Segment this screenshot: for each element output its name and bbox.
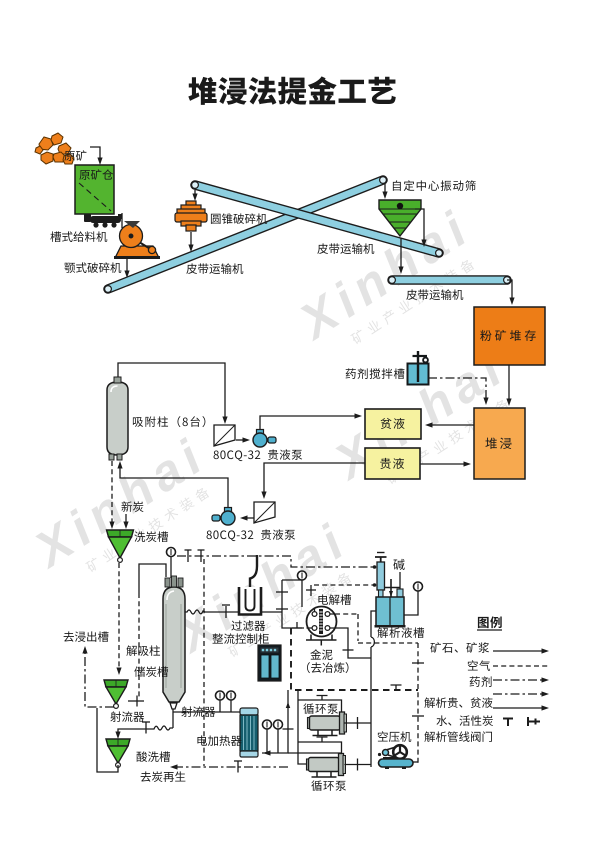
label: 碱	[393, 559, 404, 570]
pump 80CQ-32 No.2	[225, 508, 232, 514]
label: 80CQ-32 贵液泵	[207, 529, 296, 541]
wire: screen oversize return to upper belt	[415, 209, 424, 242]
legend: ore/slurry line	[493, 650, 544, 652]
label: 解析贵、贫液	[424, 697, 492, 708]
wire: bin to jaw crusher	[121, 213, 123, 228]
wire: launder to pump 1	[236, 439, 246, 441]
label: （去冶炼）	[307, 662, 349, 673]
legend: desorb solution line	[493, 693, 544, 695]
circulation pump 1	[308, 718, 311, 729]
wire: loaded carbon line (dashed) column to carbon wash tank	[111, 461, 113, 523]
heap leach box	[474, 408, 525, 479]
wire: air line (dashed) near electrowinning	[335, 614, 418, 764]
label: 整流控制柜	[212, 633, 269, 644]
wire: washed carbon (dashed) to carbon storage tank	[118, 563, 120, 668]
wire: heap leach to barren solution	[429, 424, 474, 426]
label: 堆浸法提金工艺	[188, 76, 395, 104]
wire: pump 2 discharge	[345, 764, 372, 766]
label: 电加热器	[197, 735, 241, 746]
label: 槽式给料机	[50, 231, 107, 242]
ore bin (raw ore bin)	[75, 165, 114, 214]
label: 解析液槽	[377, 627, 424, 638]
desorption liquid tank	[375, 579, 406, 628]
legend title underline	[477, 629, 502, 631]
label: 去浸出槽	[64, 631, 109, 642]
label: 自定中心振动筛	[393, 180, 476, 191]
label: 储炭槽	[134, 666, 168, 677]
gauges on heater outlet	[267, 729, 278, 753]
wire: pump 2 to adsorption column bottom	[120, 466, 228, 507]
valve on storage tank side	[128, 700, 144, 702]
launder of pump 1	[214, 425, 235, 446]
wire: reagent dosing line to heap (dash-dot)	[428, 378, 486, 400]
label: 空气	[468, 660, 490, 671]
wire: jaw crusher discharge to belt	[126, 259, 128, 272]
wire: desorb tank to circulation pumps (with crossover hop)	[371, 611, 376, 767]
label: 贫液	[381, 418, 405, 429]
pregnant solution box	[365, 448, 420, 479]
label: 洗炭槽	[134, 531, 168, 542]
label: 新炭	[121, 501, 143, 512]
wire: pump 1 to barren solution box	[260, 416, 358, 429]
wire: acid wash feed line with hose	[118, 726, 173, 734]
wire: pregnant solution to heap leach	[420, 463, 466, 465]
wire: pump 1 discharge	[345, 722, 372, 724]
carbon storage tank	[104, 680, 128, 687]
wire: to leach-out tank (dash-dot, upward)	[85, 651, 114, 707]
raw ore pile icon	[35, 133, 74, 164]
label: 药剂搅拌槽	[346, 368, 405, 379]
pressure gauge on desorb tank	[404, 591, 418, 615]
wire: electrowinning to desorb tank return	[335, 628, 371, 658]
label: 80CQ-32 贵液泵	[214, 449, 303, 461]
label: 颚式破碎机	[64, 262, 121, 273]
wire: belt head to vibrating screen	[384, 184, 386, 194]
wire: cone crusher discharge to belt	[190, 232, 192, 247]
label: 皮带运输机	[186, 263, 243, 274]
label: 射流器	[110, 711, 144, 722]
wire: raw ore to ore bin	[90, 147, 100, 160]
belt conveyor (lower, ascending to screen)	[108, 180, 383, 289]
label: 吸附柱（8台）	[133, 416, 205, 427]
label: 水、活性炭	[436, 715, 493, 726]
label: 圆锥破碎机	[211, 213, 267, 224]
label: 过滤器	[231, 620, 265, 631]
wire: screen undersize to lower belt	[400, 238, 402, 269]
adsorption column (8 units)	[107, 377, 128, 460]
wire: new carbon feed	[125, 514, 127, 524]
acid wash tank	[106, 739, 130, 746]
long dashed standpipe line	[203, 559, 205, 766]
wire: filter outlet to electrowinning feed	[262, 580, 304, 628]
launder of pump 2	[254, 502, 275, 523]
wire: belt to cone crusher	[194, 190, 196, 196]
heat exchanger column	[375, 553, 387, 598]
wire: pump suction header ladder	[298, 690, 342, 764]
wire: heater to circulation pump 2	[288, 752, 342, 754]
label: 堆浸	[485, 438, 511, 449]
circulation pump 2	[307, 759, 310, 770]
label: 皮带运输机	[406, 289, 463, 300]
reagent mixing tank	[408, 351, 429, 385]
label: 原矿	[64, 150, 86, 161]
legend: reagent line	[493, 679, 544, 681]
dashed enclosure (gold mud area)	[291, 628, 418, 690]
wire: compressor outlet	[413, 761, 418, 763]
filter	[239, 587, 261, 615]
air compressor	[378, 745, 413, 769]
gauges on jet line	[220, 700, 231, 712]
barren solution box	[365, 409, 421, 439]
electric heater	[240, 708, 258, 757]
wire: heater outlet riser	[262, 690, 288, 753]
jet device under desorption column	[170, 703, 177, 709]
label: 解析管线阀门	[424, 731, 492, 742]
label: 贵液	[380, 458, 404, 469]
pressure gauge on desorption column top	[170, 557, 172, 578]
label: 酸洗槽	[137, 751, 171, 762]
label: 循环泵	[303, 703, 338, 714]
legend: valve symbols	[503, 717, 540, 726]
jaw crusher	[114, 221, 160, 259]
belt conveyor (upper, from screen to cone crusher)	[195, 185, 439, 253]
wire: pregnant solution to launder 2	[264, 463, 365, 494]
wire: riser with pressure gauge to electrowinning cell	[282, 580, 302, 607]
belt conveyor (horizontal, to fine ore storage)	[392, 275, 507, 285]
label: 粉矿堆存	[480, 330, 536, 341]
desorption column	[163, 576, 185, 702]
self-centering vibrating screen	[379, 200, 421, 236]
carbon wash tank	[107, 530, 134, 537]
legend: air line	[493, 665, 550, 667]
cone crusher	[175, 201, 207, 231]
wire: launder 2 to pump 2	[243, 517, 254, 519]
legend: water/carbon line	[493, 707, 544, 709]
wire: column top to launder	[118, 363, 225, 419]
electrowinning cell	[306, 607, 337, 646]
pump 80CQ-32 No.1	[257, 430, 264, 436]
wire: acid tank drain loop	[97, 708, 118, 772]
label: 药剂	[470, 676, 492, 687]
wire: branch down into filter	[250, 555, 257, 589]
wire: fine ore storage to heap leach	[508, 365, 510, 401]
label: 空压机	[378, 731, 411, 742]
label: 射流器	[181, 706, 215, 717]
rectifier control cabinet	[258, 645, 281, 681]
label: 循环泵	[311, 780, 346, 791]
label: 去炭再生	[141, 771, 186, 782]
wire: desorption outlet manifold (dash-dot) to heat exchanger	[177, 556, 375, 567]
trough feeder	[84, 214, 122, 228]
wire: alkali feed	[399, 572, 401, 589]
label: 矿石、矿浆	[430, 642, 489, 653]
wire: carbon lift line to desorption column top	[139, 564, 166, 593]
label: 金泥	[310, 649, 332, 660]
wire: column side to filter (flexible hose)	[185, 610, 238, 614]
label: 解吸柱	[126, 645, 160, 656]
fine ore storage box	[474, 307, 545, 365]
wire: belt to fine ore storage	[507, 280, 512, 300]
watermarks	[287, 198, 490, 365]
wire: electrowinning top vent valve to tank line (dashed)	[310, 585, 312, 596]
label: 原矿仓	[79, 169, 113, 180]
wire: jet line to electric heater top	[173, 711, 240, 713]
wire: spent carbon out (dash-dot, to regeneration)	[174, 766, 288, 768]
label: 图例	[478, 616, 502, 628]
label: 电解槽	[318, 594, 351, 605]
label: 皮带运输机	[317, 243, 374, 254]
